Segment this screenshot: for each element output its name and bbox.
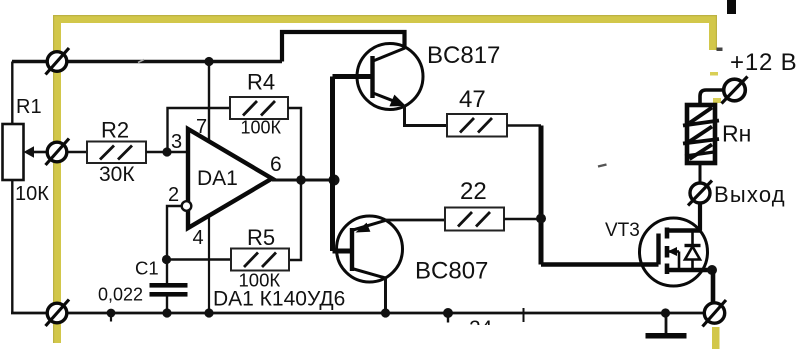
wire op-amp output pin 6 [270, 153, 338, 180]
node A junction pin3 [162, 147, 171, 156]
wire node A to op-amp pin 3 [167, 151, 188, 154]
svg-text:C1: C1 [135, 258, 159, 279]
svg-text:30К: 30К [99, 163, 135, 186]
node pin4 ground junction [204, 308, 213, 317]
wire BC817 emitter to 47 [405, 105, 448, 126]
svg-text:2: 2 [168, 184, 179, 206]
resistor R4 100K [230, 70, 288, 138]
svg-text:7: 7 [196, 116, 207, 138]
resistor R5 100K [231, 225, 289, 291]
svg-text:0,022: 0,022 [98, 285, 143, 305]
wire pin 4 to ground rail [208, 214, 210, 313]
wire BC807 collector to rail [384, 278, 387, 313]
wire base feed vertical [330, 77, 335, 252]
wire R1 wiper arrow [24, 146, 48, 157]
wire fragment dash [598, 165, 607, 167]
svg-text:VT3: VT3 [605, 220, 640, 241]
wire Rn bottom to Vyhod terminal [699, 163, 702, 184]
terminal ground right [703, 300, 727, 327]
svg-text:BC807: BC807 [415, 258, 488, 285]
wire BC807 base lead [333, 249, 353, 254]
wire R1 bottom lead [11, 180, 13, 313]
wire Rn top to +12V terminal [700, 90, 724, 106]
svg-text:R4: R4 [247, 70, 275, 95]
resistor 22 [445, 178, 504, 231]
terminal ground left [46, 300, 70, 327]
svg-text:Выход: Выход [714, 182, 786, 207]
wire pin 7 supply [208, 62, 210, 145]
wire fragment top-right [717, 0, 737, 51]
transistor Q1 BC817 [357, 42, 500, 110]
capacitor C1 0,022 [98, 258, 188, 314]
node stray junction mid [443, 308, 453, 323]
svg-text:100К: 100К [241, 118, 282, 138]
wire bottom ground rail [11, 312, 705, 315]
wire collector feed BC817 [282, 32, 405, 62]
transistor VT3 MOSFET [605, 218, 712, 286]
node ground junction [661, 308, 670, 317]
wire BC817 base lead [333, 74, 373, 79]
resistor R2 30K [87, 118, 146, 187]
svg-text:3: 3 [171, 131, 182, 153]
pin 3 label [171, 131, 182, 153]
wire pin 2 to node B [167, 206, 182, 260]
svg-text:47: 47 [459, 86, 486, 113]
node pin7 junction on top rail [204, 57, 213, 66]
svg-text:R5: R5 [247, 225, 275, 250]
wire 22 right lead [504, 218, 541, 221]
svg-text:DA1: DA1 [197, 167, 238, 190]
resistor Rn load [683, 105, 751, 163]
terminal output Vyhod [688, 181, 786, 208]
svg-text:BC817: BC817 [427, 42, 500, 69]
svg-text:4: 4 [193, 227, 204, 249]
wire R5 right lead feedback vertical [289, 180, 301, 260]
node BC807 collector junction [381, 308, 390, 317]
svg-text:6: 6 [270, 153, 282, 176]
node stray junction left [107, 309, 116, 322]
terminal input top-left [46, 48, 70, 75]
wire gate feed vertical [539, 126, 544, 265]
svg-text:R1: R1 [16, 96, 42, 118]
svg-text:22: 22 [460, 178, 487, 205]
wire stray tick [523, 308, 525, 322]
node output/base junction [329, 175, 340, 186]
op-amp DA1 [188, 116, 272, 249]
wire R4 left lead [168, 108, 231, 152]
node C1 ground junction [162, 308, 171, 317]
wire 47 right lead [507, 124, 541, 127]
wire BC807 emitter to 22 [385, 219, 445, 222]
svg-text:10К: 10К [15, 183, 49, 205]
wire R4 right lead to feedback vertical [288, 108, 301, 180]
node B junction C1/R5 [162, 255, 171, 264]
wire wiper to R2 [67, 151, 88, 154]
svg-text:+12 В: +12 В [730, 49, 797, 76]
terminal +12V [722, 49, 798, 104]
wire top rail left [12, 60, 48, 63]
wire R2 to node A [146, 151, 167, 154]
pin 2 inverting input bubble [168, 184, 191, 211]
terminal wiper [46, 139, 70, 166]
wire top rail to corner [67, 60, 283, 63]
wire left vertical R1 top lead [11, 62, 13, 125]
transistor Q2 BC807 [337, 216, 489, 285]
resistor 47 [447, 86, 507, 137]
svg-text:DA1 К140УД6: DA1 К140УД6 [213, 288, 345, 311]
wire fragment 24 label [469, 317, 493, 340]
svg-text:Rн: Rн [722, 121, 751, 147]
node VT3 source junction [707, 265, 717, 275]
node output/feedback junction [296, 175, 306, 185]
ground [646, 313, 687, 339]
wire VT3 source down [711, 270, 716, 303]
resistor R1 potentiometer [3, 96, 50, 205]
wire VT3 drain up [698, 203, 702, 231]
node gate junction [536, 214, 546, 224]
wire node B to R5 [167, 258, 232, 260]
DA1 part number label [213, 288, 345, 311]
svg-text:R2: R2 [101, 118, 129, 143]
wire junction to VT3 gate [541, 262, 659, 266]
